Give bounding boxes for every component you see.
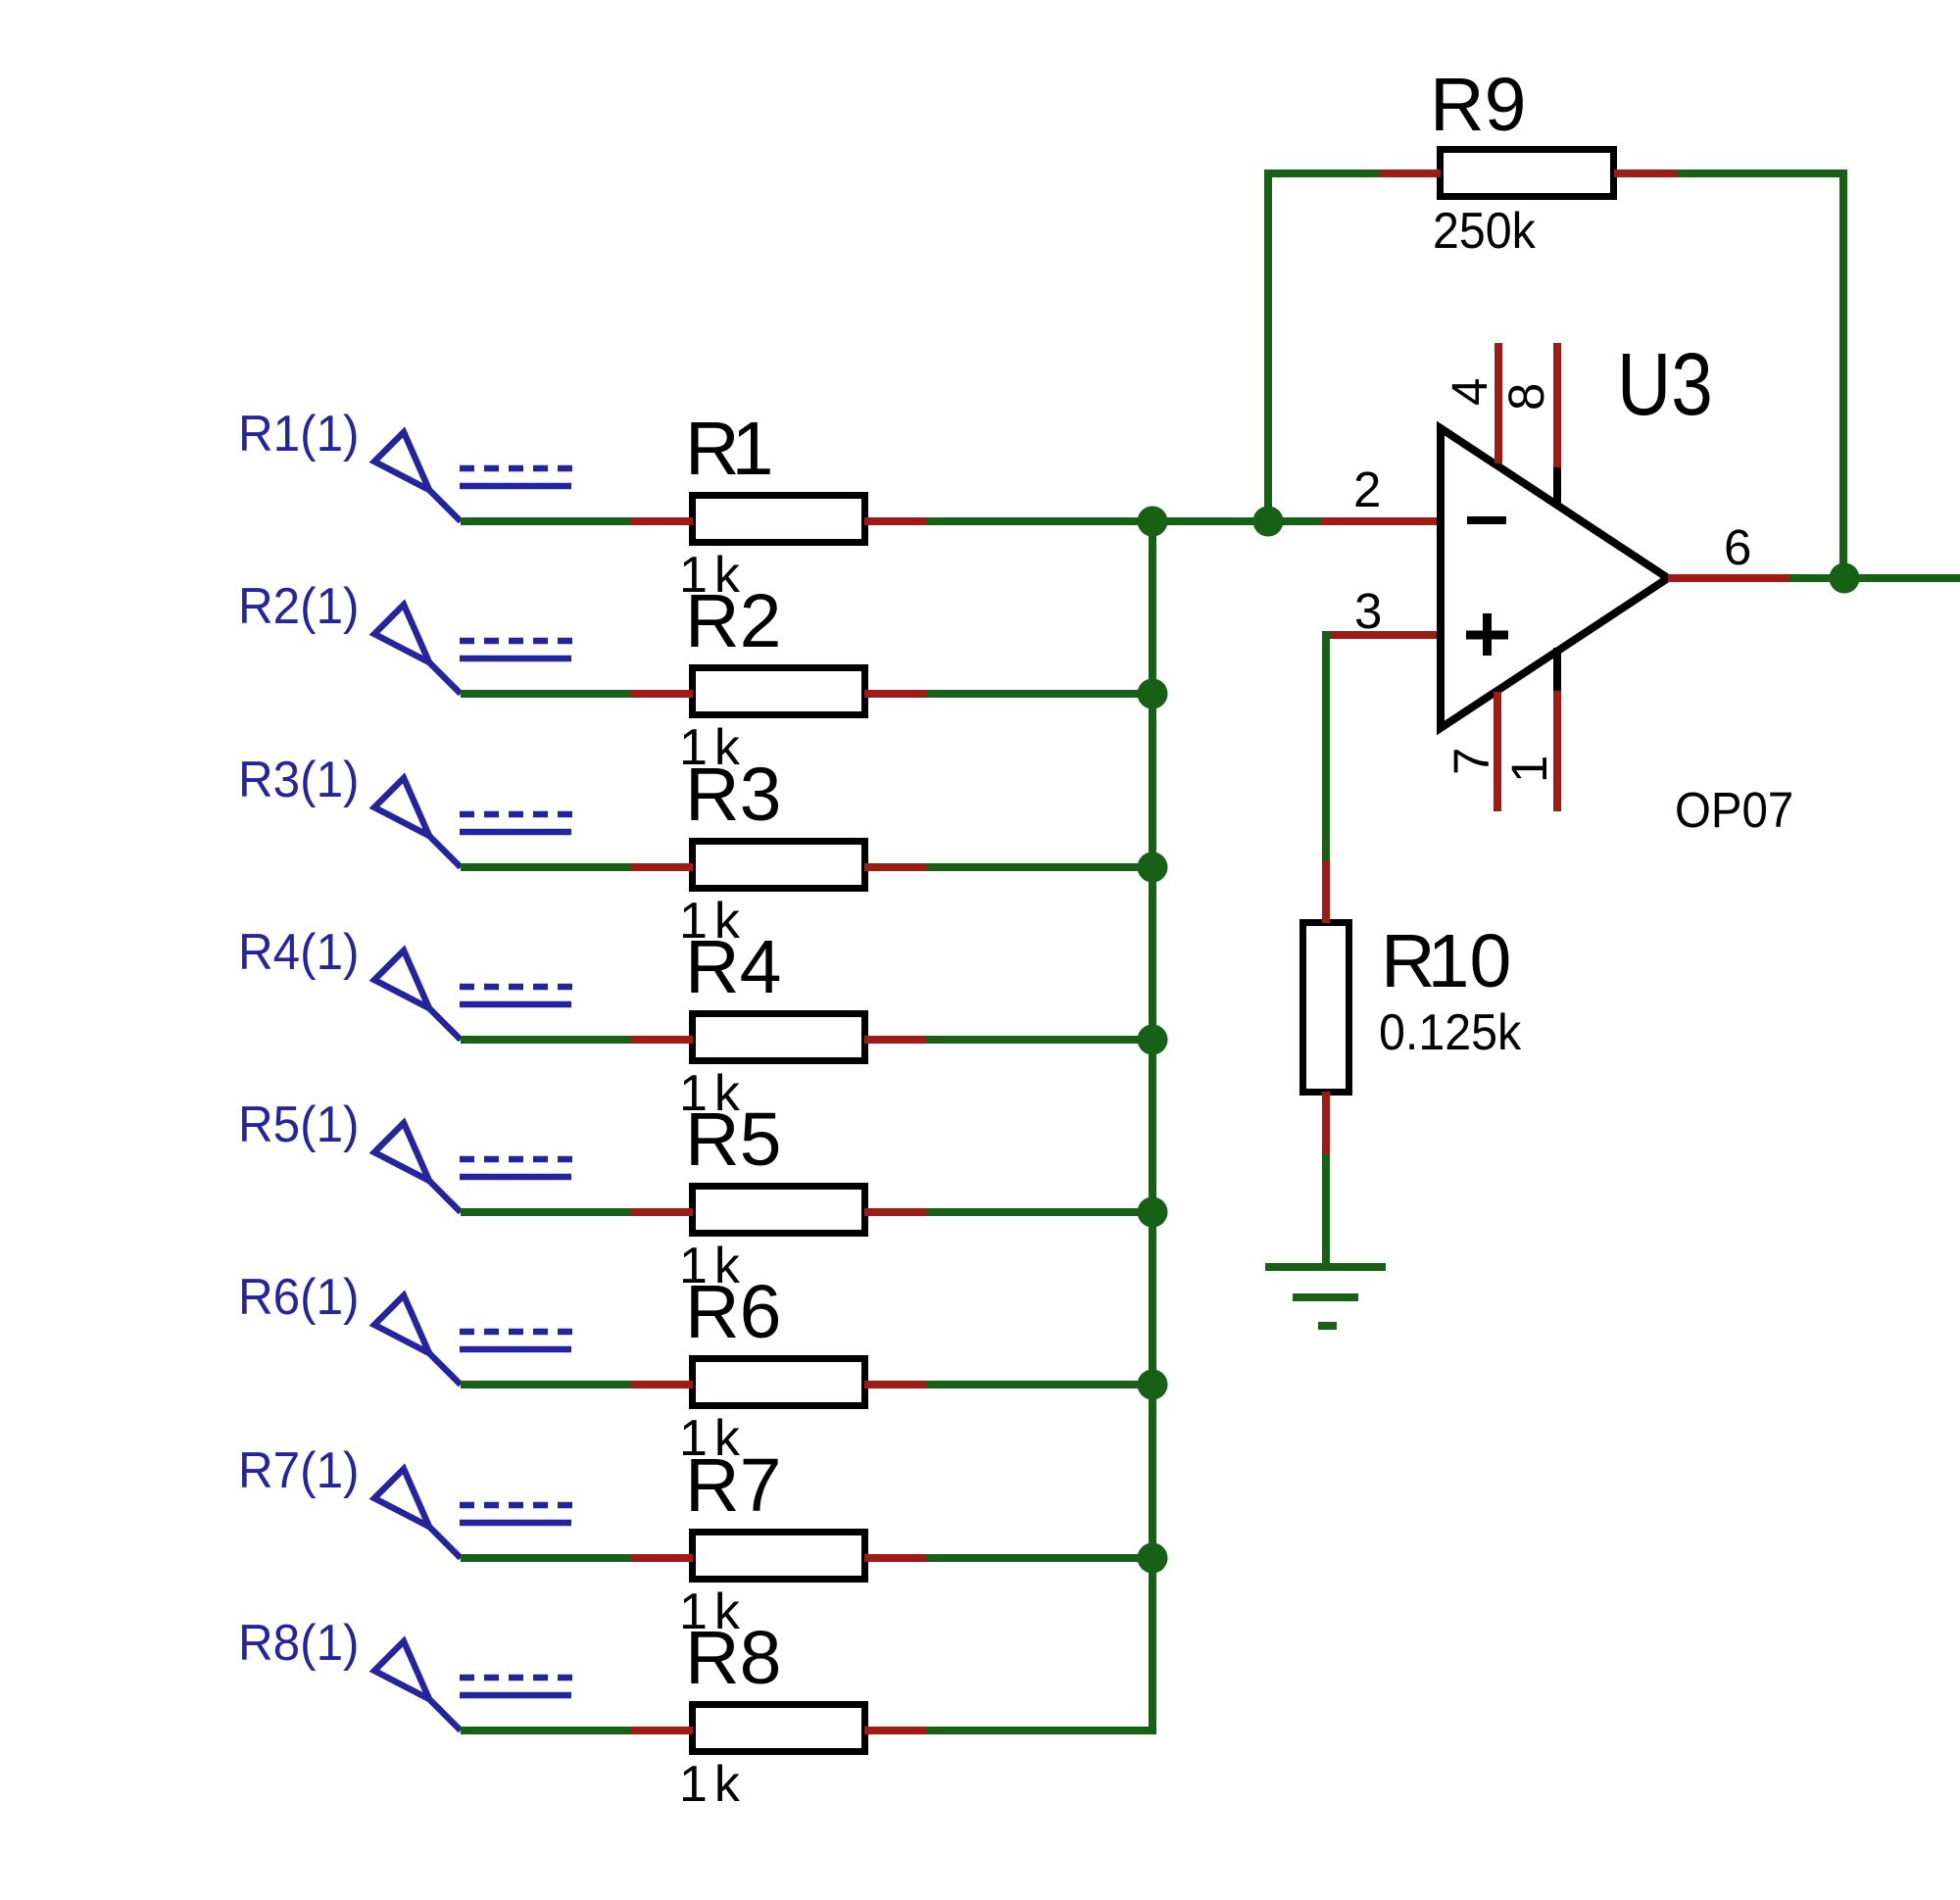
wire feedback left vertical (1264, 173, 1272, 521)
plus input marker (1466, 613, 1508, 656)
pin 2 of R2 (864, 690, 927, 698)
resistor R4 body (693, 1014, 865, 1061)
resistor R10 body (1303, 923, 1349, 1093)
ground symbol (1265, 1267, 1386, 1326)
svg-text:7: 7 (1444, 748, 1499, 775)
svg-text:R8: R8 (685, 1616, 781, 1700)
junction on bus (1138, 853, 1168, 883)
wire R5 output to bus (927, 1208, 1156, 1216)
terminal R1(1) input port (374, 432, 572, 521)
terminal R7(1) input port (374, 1469, 572, 1558)
wire R10 to ground (1322, 1154, 1330, 1267)
junction on bus (1138, 1025, 1168, 1055)
wire input to R8 (461, 1727, 633, 1734)
pin 1 of R9 (1379, 170, 1441, 177)
wire R4 output to bus (927, 1036, 1156, 1044)
pin 6 stub (1668, 574, 1789, 582)
pin 1 of R10 (1322, 860, 1330, 923)
pin 2 of R7 (864, 1554, 927, 1562)
svg-text:3: 3 (1354, 583, 1382, 639)
resistor R8 body (693, 1705, 865, 1752)
svg-text:0.125k: 0.125k (1379, 1003, 1522, 1060)
junction on bus (1138, 1370, 1168, 1400)
resistor R2 body (693, 668, 865, 715)
wire R1 output to op-amp (927, 517, 1320, 525)
terminal R4(1) input port (374, 950, 572, 1040)
pin 8 stub (1553, 343, 1561, 467)
junction bus top / R1 row (1138, 507, 1168, 537)
svg-text:R6: R6 (685, 1270, 781, 1354)
terminal R6(1) input port (374, 1295, 572, 1385)
pin 2 of R6 (864, 1381, 927, 1388)
svg-text:OP07: OP07 (1675, 782, 1793, 838)
pin 2 of R10 (1322, 1092, 1330, 1154)
wire R8 output to bus (927, 1727, 1156, 1734)
resistor R6 body (693, 1359, 865, 1406)
pin 8 inner segment (1553, 467, 1561, 507)
svg-text:4: 4 (1442, 378, 1497, 406)
svg-text:R2(1): R2(1) (238, 577, 360, 634)
wire input to R5 (461, 1208, 633, 1216)
op-amp U3 body (1441, 428, 1668, 728)
wire R9 right (1678, 170, 1847, 177)
wire pin3 down (1322, 631, 1330, 860)
wire R2 output to bus (927, 690, 1156, 698)
wire input to R4 (461, 1036, 633, 1044)
pin 4 stub (1494, 343, 1502, 463)
pin 1 of R2 (630, 690, 693, 698)
pin 3 stub (1322, 631, 1437, 639)
svg-text:R7: R7 (685, 1443, 781, 1528)
svg-text:R10: R10 (1381, 919, 1511, 1003)
wire op-amp output (1789, 574, 1960, 582)
resistor R1 body (693, 496, 865, 543)
pin 2 stub (1320, 517, 1437, 525)
svg-text:1: 1 (1501, 755, 1557, 783)
svg-text:R5(1): R5(1) (238, 1096, 360, 1152)
svg-text:R2: R2 (685, 579, 781, 663)
svg-text:R1: R1 (685, 407, 773, 491)
pin 2 of R8 (864, 1727, 927, 1734)
pin 2 of R4 (864, 1036, 927, 1044)
svg-text:8: 8 (1498, 383, 1554, 411)
svg-text:R9: R9 (1430, 63, 1526, 147)
pin 1 of R4 (630, 1036, 693, 1044)
pin 1 of R8 (630, 1727, 693, 1734)
pin 1 stub (1553, 691, 1561, 811)
pin 2 of R5 (864, 1208, 927, 1216)
pin 1 of R7 (630, 1554, 693, 1562)
wire input to R2 (461, 690, 633, 698)
minus input marker (1467, 516, 1506, 524)
resistor R7 body (693, 1533, 865, 1580)
svg-text:R5: R5 (685, 1097, 781, 1182)
pin 2 of R3 (864, 863, 927, 871)
pin 7 stub (1494, 692, 1501, 811)
terminal R2(1) input port (374, 605, 572, 694)
pin 2 of R9 (1614, 170, 1678, 177)
svg-text:R7(1): R7(1) (238, 1441, 360, 1498)
junction on bus (1138, 679, 1168, 709)
svg-text:R8(1): R8(1) (238, 1614, 360, 1671)
svg-text:R4: R4 (685, 925, 781, 1009)
junction on bus (1138, 1543, 1168, 1574)
wire R3 output to bus (927, 863, 1156, 871)
resistor R5 body (693, 1187, 865, 1234)
resistor R9 body (1441, 150, 1614, 197)
svg-text:R6(1): R6(1) (238, 1268, 360, 1325)
svg-text:250k: 250k (1433, 202, 1537, 259)
terminal R8(1) input port (374, 1641, 572, 1730)
pin 1 of R1 (630, 517, 693, 525)
svg-text:2: 2 (1353, 462, 1381, 517)
pin 1 of R5 (630, 1208, 693, 1216)
svg-text:U3: U3 (1617, 334, 1713, 433)
summing bus vertical wire (1149, 521, 1156, 1734)
wire input to R6 (461, 1381, 633, 1388)
pin 2 of R1 (864, 517, 927, 525)
svg-text:R4(1): R4(1) (238, 923, 360, 980)
wire input to R3 (461, 863, 633, 871)
wire input to R7 (461, 1554, 633, 1562)
resistor R3 body (693, 842, 865, 889)
svg-text:6: 6 (1724, 519, 1751, 575)
pin 1 of R3 (630, 863, 693, 871)
terminal R3(1) input port (374, 778, 572, 867)
terminal R5(1) input port (374, 1123, 572, 1212)
junction output node (1830, 563, 1860, 594)
wire R6 output to bus (927, 1381, 1156, 1388)
svg-text:R3: R3 (685, 753, 781, 837)
junction on bus (1138, 1197, 1168, 1228)
wire feedback right vertical (1839, 173, 1847, 578)
wire R9 left (1264, 170, 1379, 177)
pin 1 inner segment (1553, 648, 1561, 691)
svg-text:R1(1): R1(1) (238, 405, 360, 462)
wire input to R1 (461, 517, 633, 525)
svg-text:R3(1): R3(1) (238, 751, 360, 807)
wire R7 output to bus (927, 1554, 1156, 1562)
pin 1 of R6 (630, 1381, 693, 1388)
junction feedback node (1253, 507, 1284, 537)
